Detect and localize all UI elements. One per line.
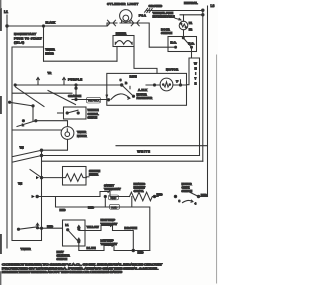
arc jumper xyxy=(111,94,130,99)
wire A red bypass xyxy=(56,197,150,251)
label resistor xyxy=(89,169,101,177)
node L1 xyxy=(4,10,8,14)
contact L row xyxy=(17,120,37,127)
svg-text:L3: L3 xyxy=(211,4,215,8)
scan corner smudges xyxy=(0,0,2,285)
svg-text:RED: RED xyxy=(47,224,54,228)
svg-text:RED: RED xyxy=(138,250,145,254)
wire light branch riser xyxy=(107,23,108,26)
wire k drop xyxy=(32,106,34,121)
label RED-BLK xyxy=(87,97,101,103)
wire row neutral return xyxy=(42,160,203,162)
svg-text:SWITCH: SWITCH xyxy=(88,115,98,119)
svg-text:RUN: RUN xyxy=(130,75,137,79)
svg-text:3: 3 xyxy=(120,78,122,82)
wire lamp to neutral row xyxy=(141,23,176,47)
svg-text:I: I xyxy=(195,72,196,76)
svg-text:E: E xyxy=(195,82,197,86)
svg-text:WHITE: WHITE xyxy=(137,150,150,154)
svg-text:RESISTOR: RESISTOR xyxy=(89,172,99,176)
wire L1 rail left side xyxy=(6,15,8,248)
wire bus vertical xyxy=(41,150,43,240)
blade start 1 xyxy=(16,87,45,107)
wire row white xyxy=(42,150,200,156)
wire riser xyxy=(105,197,132,208)
wire feed into timer xyxy=(43,26,45,61)
contact heat selector row xyxy=(17,223,38,230)
buzzer B1 xyxy=(113,32,157,74)
label 3 xyxy=(120,78,122,82)
blade contact 3 xyxy=(122,75,137,98)
label NC NO xyxy=(170,41,194,46)
svg-text:L1: L1 xyxy=(4,10,8,14)
svg-text:MOTOR: MOTOR xyxy=(166,67,179,71)
fine print line 3 xyxy=(2,270,122,274)
label ground xyxy=(149,4,163,8)
label red bottom xyxy=(138,250,145,254)
wire door NO down xyxy=(187,47,200,84)
svg-text:4750 W.: 4750 W. xyxy=(134,189,144,193)
svg-text:RED-BLK: RED-BLK xyxy=(88,99,100,103)
wire timer motor bottom xyxy=(42,139,68,150)
svg-text:SWITCH: SWITCH xyxy=(182,189,193,193)
fuse thermal F1-F2 xyxy=(153,11,182,20)
junction motor leads xyxy=(153,84,181,86)
svg-text:PURPLE: PURPLE xyxy=(68,77,82,81)
heat selector contacts xyxy=(65,223,80,243)
motor timer TM xyxy=(61,127,74,140)
svg-text:THERMOSTAT: THERMOSTAT xyxy=(104,187,121,191)
svg-text:L1: L1 xyxy=(65,223,69,227)
label timer xyxy=(21,247,32,251)
wire blue xyxy=(79,242,104,251)
label Tm xyxy=(20,146,25,150)
label F1 F2 xyxy=(189,21,193,32)
svg-text:4: 4 xyxy=(195,201,197,205)
label red wireA xyxy=(110,204,120,209)
contact heater row xyxy=(32,195,39,198)
label red heat row xyxy=(47,224,54,228)
wire yellow xyxy=(79,225,101,231)
svg-text:TM: TM xyxy=(20,146,25,150)
fuse body xyxy=(179,21,188,30)
label timer knob xyxy=(45,48,55,56)
label heating element xyxy=(134,182,146,193)
svg-text:T: T xyxy=(195,77,197,81)
wire contact bar xyxy=(12,85,76,100)
wire to timer motor top xyxy=(36,121,68,127)
contact resistor feed xyxy=(30,170,43,180)
blade start 2 xyxy=(48,91,76,105)
wire purple row xyxy=(15,77,122,85)
timer box outline xyxy=(12,47,44,241)
switch heat selector box xyxy=(63,220,86,246)
svg-text:N.C.: N.C. xyxy=(170,41,176,45)
wire bump to element xyxy=(110,196,130,198)
svg-text:BLUE: BLUE xyxy=(87,246,96,250)
label heat selector switch xyxy=(57,250,71,261)
junction start contacts xyxy=(14,84,77,89)
svg-text:ORANGE: ORANGE xyxy=(68,94,81,98)
junction orange start xyxy=(75,98,77,100)
wire fuse drop xyxy=(180,15,203,21)
label W xyxy=(125,81,128,85)
svg-text:F2: F2 xyxy=(189,28,193,32)
wire L3 rail xyxy=(207,6,209,197)
switch momentary push to start ML4 xyxy=(14,32,42,45)
svg-text:BLACK: BLACK xyxy=(46,21,56,25)
door switch blade xyxy=(183,38,191,47)
svg-text:(ML4): (ML4) xyxy=(14,41,24,45)
svg-text:SWITCH: SWITCH xyxy=(161,31,172,35)
contact white row xyxy=(13,154,43,162)
svg-text:GROUND: GROUND xyxy=(149,4,163,8)
wire fuse to door switch xyxy=(183,30,185,38)
node L3 xyxy=(211,4,215,8)
scan edge right xyxy=(216,55,218,283)
svg-text:YELLOW: YELLOW xyxy=(87,225,99,229)
terminal T prime xyxy=(176,80,181,85)
fine print line 1 xyxy=(2,263,163,267)
wire row top right xyxy=(116,145,208,147)
wire stub row xyxy=(13,129,62,131)
svg-text:F1: F1 xyxy=(189,21,193,25)
wire heat selector row xyxy=(38,227,63,229)
label 7 xyxy=(106,94,108,98)
junction riser xyxy=(104,195,106,197)
wire timer top to buzzer xyxy=(44,60,118,62)
svg-text:BUZZER: BUZZER xyxy=(116,32,127,36)
svg-text:BROWN: BROWN xyxy=(124,226,136,230)
ground chassis symbol xyxy=(145,8,203,12)
svg-text:THERMOSTAT: THERMOSTAT xyxy=(101,242,118,246)
label motor cent switch xyxy=(60,205,95,212)
wire heater row xyxy=(37,196,100,198)
label timer motor xyxy=(77,130,87,138)
label wrinkle control switch xyxy=(88,108,99,119)
svg-text:CYLINDER LIGHT: CYLINDER LIGHT xyxy=(107,2,138,6)
svg-text:TIMER: TIMER xyxy=(21,247,32,251)
label red heater xyxy=(157,193,164,197)
wire BLACK top row xyxy=(7,21,107,27)
wire white rail xyxy=(199,58,201,156)
svg-text:RED: RED xyxy=(157,193,164,197)
junction neutral dots xyxy=(202,9,204,16)
resistor heating element xyxy=(130,192,159,201)
svg-text:SWITCH: SWITCH xyxy=(57,257,68,261)
svg-text:B: B xyxy=(125,81,128,85)
wire resistor row xyxy=(42,177,63,179)
svg-text:F3A: F3A xyxy=(139,13,147,17)
connector plug left xyxy=(108,20,118,26)
switch wrinkle control xyxy=(58,107,87,119)
label F3A xyxy=(139,13,147,17)
junction red out xyxy=(132,249,134,251)
junction element right xyxy=(153,195,155,197)
connector plug right xyxy=(131,20,141,26)
svg-text:NEUTRAL: NEUTRAL xyxy=(184,1,198,5)
lamp bulb xyxy=(120,10,132,23)
switch door xyxy=(161,27,172,35)
motor box xyxy=(107,67,187,105)
door switch contacts xyxy=(175,37,193,48)
svg-text:RED: RED xyxy=(201,193,208,197)
motor M1 xyxy=(160,78,173,91)
junction feed on black row xyxy=(42,25,44,27)
svg-text:3: 3 xyxy=(179,199,181,203)
svg-text:N.O.: N.O. xyxy=(188,41,194,45)
svg-text:TM: TM xyxy=(18,182,23,186)
contact 7 motor switch xyxy=(107,99,109,101)
label motor protector xyxy=(137,92,153,100)
svg-text:RED: RED xyxy=(88,205,95,209)
svg-text:T': T' xyxy=(176,80,179,84)
wire neutral rail xyxy=(202,10,204,161)
wire orange row xyxy=(68,94,109,100)
wire brown xyxy=(113,226,150,251)
scan artifact marks xyxy=(0,9,2,253)
label RED rounded xyxy=(109,195,119,200)
svg-text:RED: RED xyxy=(60,208,67,212)
wire resistor to box edge xyxy=(86,176,89,178)
thermostat high temp xyxy=(101,218,118,230)
thermostat safety xyxy=(100,183,121,196)
door switch box xyxy=(168,37,197,52)
svg-text:RED: RED xyxy=(111,205,118,209)
junction bus heat row xyxy=(40,227,42,229)
thermostat low temp xyxy=(101,238,118,250)
contact 3 motor switch xyxy=(121,84,123,86)
contact K blade xyxy=(9,101,35,107)
lamp cylinder light xyxy=(107,2,138,6)
svg-text:THERMOSTAT: THERMOSTAT xyxy=(101,222,118,226)
label WHITE vertical xyxy=(194,62,197,86)
label neutral xyxy=(184,1,198,5)
label A-BLK xyxy=(138,88,148,92)
svg-text:H: H xyxy=(195,67,197,71)
wire motor leads xyxy=(146,84,187,86)
contact timer motor xyxy=(13,149,43,157)
fine print line 2 xyxy=(2,266,159,270)
junction black/L1 xyxy=(6,25,8,27)
svg-text:MOTOR: MOTOR xyxy=(77,134,87,138)
svg-text:KNOB: KNOB xyxy=(45,51,54,55)
svg-text:W: W xyxy=(194,62,197,66)
resistor 2.77k box xyxy=(63,167,87,186)
svg-text:TR: TR xyxy=(48,71,53,75)
svg-text:NUMBER WHEN WRITING ABOUT THIS: NUMBER WHEN WRITING ABOUT THIS DRYER OR … xyxy=(2,270,122,274)
label TM2 xyxy=(18,182,23,186)
svg-text:7: 7 xyxy=(106,94,108,98)
switch motor centrifugal xyxy=(174,191,207,198)
timer start contact arrows xyxy=(37,71,66,85)
svg-text:PROTECTOR: PROTECTOR xyxy=(137,96,153,100)
svg-text:NOT RESETTABLE: NOT RESETTABLE xyxy=(153,14,175,18)
label 3 4 arc xyxy=(179,199,197,205)
label red right xyxy=(201,193,208,197)
